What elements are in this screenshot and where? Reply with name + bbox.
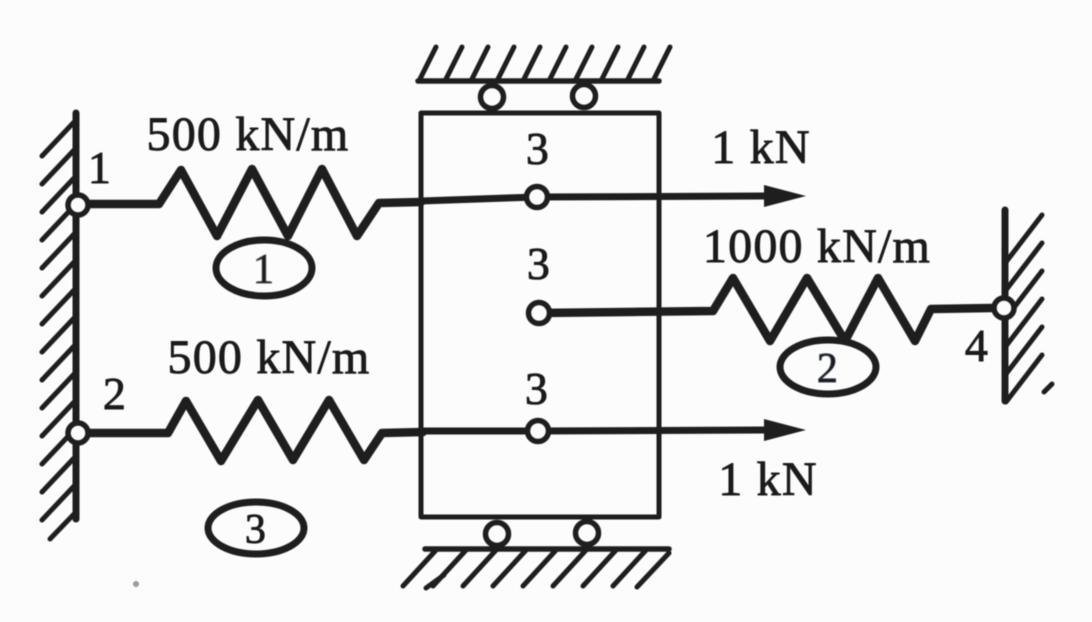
top roller 1: [481, 86, 504, 109]
left wall hatching: [42, 120, 76, 539]
svg-text:500 kN/m: 500 kN/m: [147, 108, 350, 161]
spring 2 (1000 kN/m) middle line: [539, 278, 992, 341]
svg-text:3: 3: [525, 363, 549, 414]
svg-text:1: 1: [253, 247, 275, 293]
right wall hatching: [1006, 215, 1052, 402]
right wall line: [1002, 210, 1009, 401]
bottom roller 2: [576, 522, 599, 545]
left wall line: [73, 113, 80, 519]
spring 3 (500 kN/m) + bottom line to arrow: [88, 400, 423, 461]
svg-text:1: 1: [88, 142, 112, 193]
svg-text:1 kN: 1 kN: [718, 453, 817, 506]
svg-text:2: 2: [817, 346, 839, 392]
svg-text:2: 2: [103, 368, 127, 419]
svg-text:1000 kN/m: 1000 kN/m: [703, 220, 931, 273]
scan speckle dot: [133, 581, 139, 587]
spring 1 (500 kN/m) + top line to arrow: [88, 169, 421, 236]
svg-text:3: 3: [526, 123, 550, 174]
svg-text:3: 3: [245, 507, 267, 553]
element ellipse 3: [208, 502, 304, 554]
node 3 top: [527, 187, 548, 208]
node 3 bottom: [528, 421, 549, 442]
node 2: [68, 423, 88, 443]
bottom support line: [425, 546, 669, 552]
svg-text:3: 3: [527, 238, 551, 289]
node 1: [68, 195, 88, 215]
element ellipse 1: [216, 240, 312, 296]
svg-text:1 kN: 1 kN: [711, 121, 810, 174]
bottom roller 1: [486, 523, 509, 546]
node 3 middle: [529, 303, 550, 324]
rigid block: [421, 113, 659, 517]
bottom support hatching: [403, 549, 669, 588]
svg-text:4: 4: [965, 320, 989, 371]
element ellipse 2: [780, 340, 876, 394]
top roller 2: [573, 85, 596, 108]
top arrowhead (1 kN): [764, 185, 806, 207]
svg-text:500 kN/m: 500 kN/m: [168, 331, 371, 384]
node 4: [994, 298, 1014, 318]
top support hatching: [419, 47, 670, 81]
bottom arrowhead (1 kN): [764, 419, 806, 441]
top support line: [418, 78, 659, 84]
